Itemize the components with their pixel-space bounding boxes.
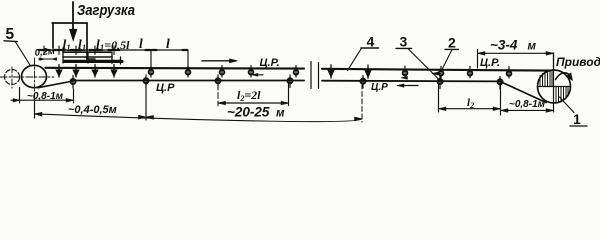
- svg-text:Ц.Р.: Ц.Р.: [480, 57, 500, 69]
- svg-text:~3-4: ~3-4: [490, 38, 518, 53]
- svg-text:м: м: [276, 108, 285, 120]
- svg-text:l1: l1: [78, 37, 86, 53]
- svg-text:l1: l1: [63, 37, 71, 53]
- svg-text:Загрузка: Загрузка: [77, 2, 135, 19]
- svg-text:l2=2l: l2=2l: [237, 88, 261, 103]
- svg-text:Ц.Р: Ц.Р: [371, 82, 388, 93]
- svg-text:0,2м: 0,2м: [34, 46, 55, 59]
- svg-text:l: l: [166, 36, 170, 51]
- svg-text:l2: l2: [467, 97, 474, 110]
- svg-text:~20-25: ~20-25: [227, 105, 270, 120]
- svg-text:~0,8-1м: ~0,8-1м: [27, 91, 64, 102]
- svg-text:l: l: [139, 36, 143, 51]
- svg-text:~0,4-0,5м: ~0,4-0,5м: [68, 104, 117, 116]
- svg-text:l1=0,5l: l1=0,5l: [96, 37, 130, 53]
- svg-text:м: м: [528, 41, 537, 53]
- svg-text:Ц.Р.: Ц.Р.: [260, 57, 280, 69]
- svg-text:2: 2: [448, 35, 456, 51]
- svg-text:Привод: Привод: [556, 55, 600, 69]
- svg-text:4: 4: [367, 34, 375, 50]
- svg-text:1: 1: [573, 111, 581, 127]
- svg-text:~0,8-1м: ~0,8-1м: [509, 99, 546, 110]
- svg-text:Ц.Р: Ц.Р: [156, 82, 175, 94]
- svg-text:3: 3: [400, 34, 408, 50]
- svg-text:5: 5: [6, 26, 15, 43]
